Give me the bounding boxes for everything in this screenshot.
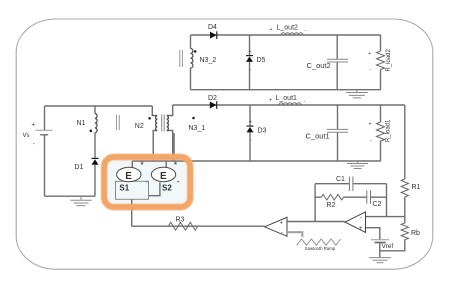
voltage source Vref [371,240,393,250]
svg-text:R2: R2 [327,202,336,209]
wire feedback left vertical [314,184,316,222]
wire R_load1 bottom [380,141,382,162]
inductor L_out2 [270,25,308,36]
voltage source Vs [23,122,53,148]
diode D1 [75,158,99,170]
svg-text:L_out2: L_out2 [277,25,299,32]
wire bottom-left rail [45,195,96,197]
wire S1 drain stub [131,161,133,168]
wire output2 top rail [191,34,381,36]
wire output1 top rail [173,104,405,106]
wire C1 branch left [315,183,349,185]
wire Vs top lead [44,106,46,130]
wire N2 left vertical into switch box [152,133,154,161]
wire N1 to D1 [94,133,96,158]
wire C_out2 branch [336,35,338,59]
highlight box inner tint [108,160,187,203]
svg-text:-: - [250,138,252,144]
svg-text:-: - [370,67,372,73]
svg-text:+: + [368,51,371,57]
wire D3 branch [249,105,251,126]
core bars of N3_2 [180,50,183,67]
svg-text:+: + [249,119,252,125]
wire D1 to bottom rail [94,165,96,196]
wire PWM output to R3 [132,225,265,227]
wire output2 bottom rail [191,89,381,91]
resistor R2 [321,194,343,208]
highlight box around S1 S2 [104,157,190,207]
svg-text:-: - [304,99,306,105]
wire error amp output to PWM + input [287,221,345,223]
wire Vs bottom lead [44,135,46,196]
diode D2 [208,95,217,109]
resistor R_load2 [368,48,392,73]
resistor R3 [168,217,197,231]
wire N3_2 top lead [190,35,192,49]
capacitor C1 [336,176,353,191]
wire error amp + input to Vref [366,228,380,240]
ground output2 [346,90,368,98]
gate wiring rectangle [116,181,149,199]
wire Rb bottom to Vref ground [380,240,405,251]
wire R_load1 branch [380,105,382,122]
capacitor C_out2 [307,59,349,70]
wire output1 bottom rail [132,160,380,162]
wire top-left rail [45,105,153,107]
switch S2 [151,160,178,192]
wire C_out2 bottom [336,62,338,89]
wire R2 to C2 [344,196,367,198]
svg-text:R3: R3 [176,217,185,224]
svg-text:N2: N2 [135,123,144,130]
ground output1 [347,161,368,169]
wire N3_1 bottom lead [167,131,173,162]
svg-text:Rb: Rb [411,230,420,237]
svg-text:-: - [281,230,283,236]
svg-text:*: * [174,160,178,170]
svg-text:L_out1: L_out1 [276,95,298,102]
wire D3 bottom [249,133,251,162]
svg-text:N1: N1 [77,120,86,127]
svg-text:N3_2: N3_2 [200,57,217,64]
winding N3_1 [167,116,206,133]
resistor Rb [401,223,420,240]
winding N1 [77,114,98,133]
wire Vref bottom to ground [379,243,381,258]
wire S2 gate stub [149,182,160,195]
svg-text:-: - [360,216,362,222]
svg-text:-: - [370,138,372,144]
wire N3_1 top lead [167,105,173,116]
wire error amp - input to divider node [366,216,405,218]
wire C_out1 branch [337,105,339,129]
svg-text:Sawtooth Ramp: Sawtooth Ramp [305,246,336,251]
wire R2 branch left [315,196,321,198]
port dot S2 [177,181,179,183]
svg-text:+: + [32,122,36,129]
ground Vref [369,258,391,263]
core bars of N1 [117,115,120,130]
inductor L_out1 [269,95,306,105]
svg-text:D2: D2 [208,95,217,102]
wire N1 branch top [94,106,96,114]
svg-text:-: - [305,28,307,34]
svg-text:*: * [140,160,144,170]
wire R_load2 branch [380,35,382,51]
wire R_load2 bottom [380,70,382,90]
svg-text:Vs: Vs [23,133,30,139]
svg-text:E: E [125,171,132,182]
svg-text:C1: C1 [336,176,345,183]
capacitor C_out1 [306,129,349,140]
wire gate exit from box [131,199,133,226]
diode D5 [246,49,266,73]
svg-text:-: - [250,67,252,73]
svg-text:+: + [269,98,272,104]
svg-text:R_load1: R_load1 [386,119,392,142]
svg-text:N3_1: N3_1 [189,125,206,132]
wire C1 branch right [353,183,387,185]
svg-text:+: + [270,27,273,33]
svg-text:+: + [249,49,252,55]
wire N2 top lead [152,106,157,116]
svg-text:D5: D5 [257,57,266,64]
svg-text:S1: S1 [119,184,129,193]
capacitor C2 [367,190,382,208]
svg-text:+: + [369,122,372,128]
wire feedback right vertical [386,184,388,217]
wire S2 drain stub [165,161,167,168]
svg-text:D4: D4 [208,24,217,31]
wire R1 to Rb [404,197,406,223]
sawtooth ramp source [287,232,341,251]
svg-text:Vref: Vref [382,243,394,250]
wire D5 branch [249,35,251,56]
core of N2/N3_1 transformer [162,115,165,132]
svg-text:+: + [359,226,363,232]
diode D3 [247,119,267,143]
svg-text:-: - [33,141,35,148]
wire N2 bottom lead [153,131,157,162]
svg-text:R1: R1 [412,184,421,191]
op-amp PWM comparator [265,217,288,236]
wire sense corner to R1 [404,105,406,179]
svg-text:E: E [160,171,167,182]
ground left [71,196,92,206]
wire N3_2 bottom lead [190,68,192,90]
svg-text:D3: D3 [258,128,267,135]
winding N2 [135,116,157,131]
resistor R1 [401,179,420,197]
wire N2 right vertical into switch box [173,133,175,161]
winding N3_2 [191,49,217,68]
op-amp error amplifier [345,212,366,233]
wire C_out1 bottom [337,132,339,161]
wire D5 bottom [249,62,251,90]
svg-text:S2: S2 [162,184,172,193]
svg-text:C2: C2 [373,201,382,208]
resistor R_load1 [369,119,392,144]
svg-text:R_load2: R_load2 [386,48,392,71]
switch S1 [117,160,145,192]
port dot S1 [146,181,148,183]
diode D4 [208,24,217,39]
svg-text:C_out2: C_out2 [307,61,331,70]
svg-text:C_out1: C_out1 [306,132,330,141]
svg-text:+: + [280,221,284,227]
wire C2 right [371,196,387,198]
svg-text:D1: D1 [75,164,84,171]
